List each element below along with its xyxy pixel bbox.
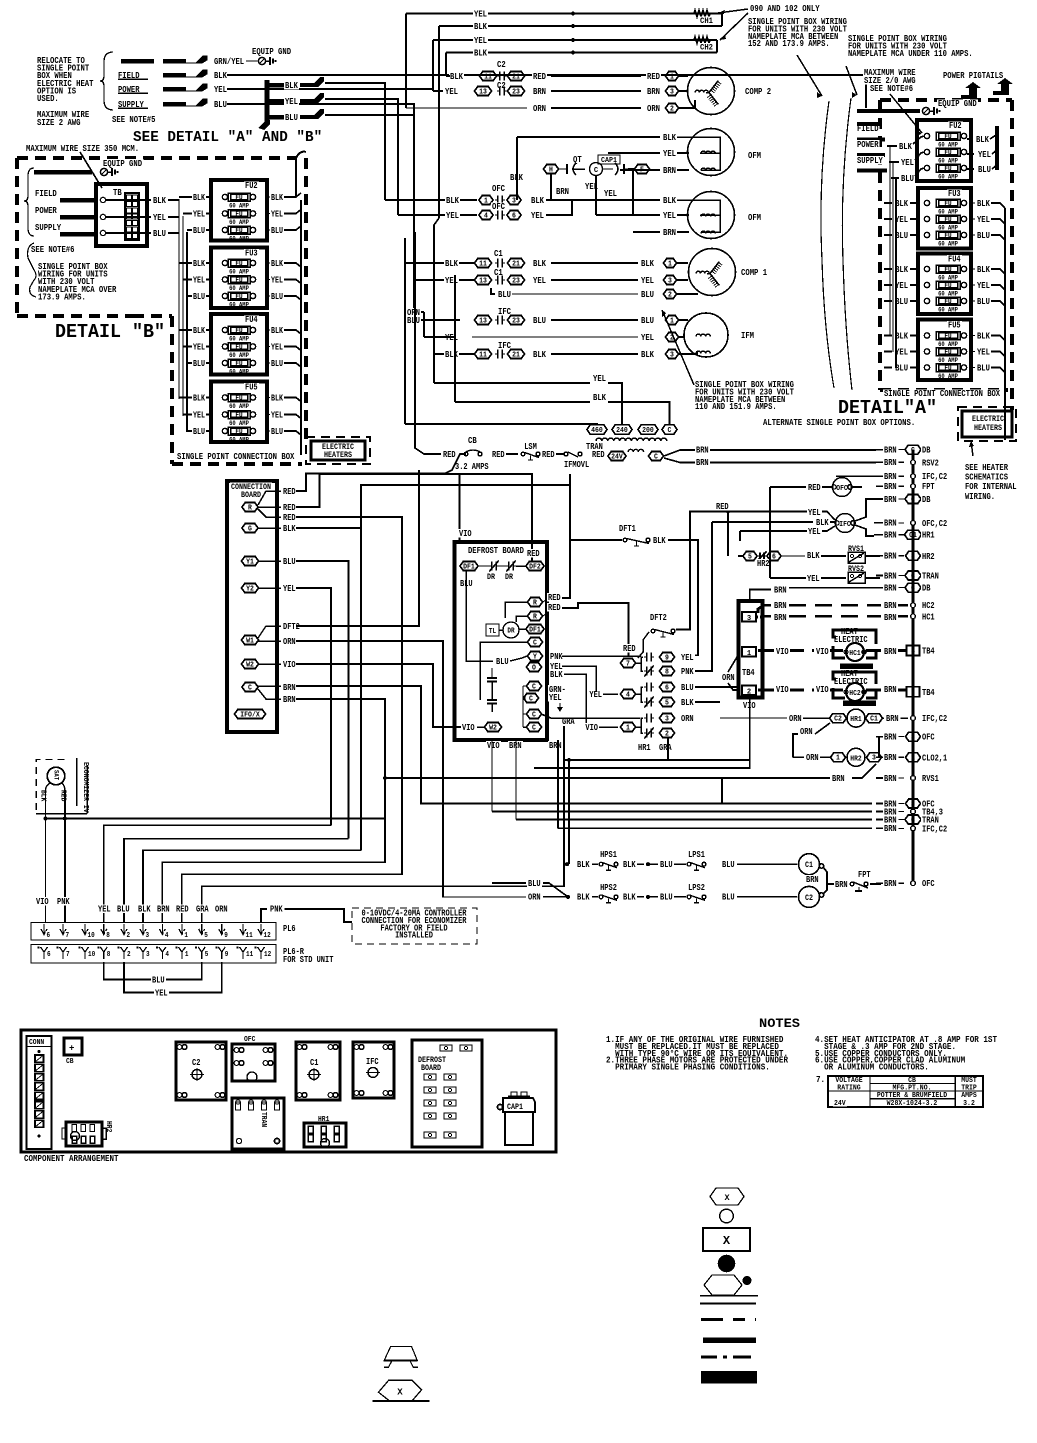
svg-text:BLU: BLU xyxy=(271,359,283,369)
svg-text:DETAIL"A": DETAIL"A" xyxy=(838,397,937,419)
economizer dashed box xyxy=(36,760,64,814)
label alternate single point box options xyxy=(762,418,917,427)
power pigtail arrow 1 xyxy=(961,82,981,99)
dashed thick HC1 wire xyxy=(773,613,788,621)
svg-text:IFC: IFC xyxy=(498,307,511,317)
svg-text:YEL: YEL xyxy=(193,209,205,219)
svg-text:BLU: BLU xyxy=(977,296,990,307)
svg-text:BLU: BLU xyxy=(722,892,735,903)
svg-text:YEL: YEL xyxy=(445,275,458,286)
right FU3 left BLU xyxy=(894,231,909,239)
label RED top right xyxy=(526,549,541,557)
svg-text:LPS2: LPS2 xyxy=(688,882,705,893)
svg-text:BLU: BLU xyxy=(722,859,735,870)
defrost R hexpill 2 xyxy=(528,612,543,621)
defrost contact DR 2 xyxy=(508,562,510,571)
svg-text:BLU: BLU xyxy=(895,230,908,241)
svg-text:BLK: BLK xyxy=(895,331,908,342)
fan motor OFM top xyxy=(688,129,735,176)
wire YEL mid xyxy=(592,374,607,382)
svg-text:BLU: BLU xyxy=(496,656,509,667)
BRN wire hc1 to TB4-4 xyxy=(883,647,898,655)
right FU3 fuse 2 xyxy=(924,216,929,221)
svg-text:FU4: FU4 xyxy=(948,255,961,265)
svg-text:12: 12 xyxy=(264,932,272,940)
right FU3 left BLK xyxy=(894,199,909,207)
svg-text:RED: RED xyxy=(623,643,636,654)
bus terminal IFC,C2 at 476 xyxy=(911,474,916,479)
svg-text:DEFROST BOARD: DEFROST BOARD xyxy=(468,546,524,556)
wire YEL to ifc top xyxy=(805,511,807,514)
leader line from mcm note to TB xyxy=(80,152,102,188)
FU4 right wire BLK xyxy=(267,329,270,331)
legend line under hexagon xyxy=(700,1295,758,1297)
plug hexpill C xyxy=(662,425,677,434)
svg-text:BLU: BLU xyxy=(901,173,914,184)
svg-text:7.: 7. xyxy=(816,1075,825,1085)
svg-text:VIO: VIO xyxy=(36,896,49,907)
FU5 right wire YEL xyxy=(267,414,270,416)
fuse FU3 element 3 xyxy=(222,293,227,298)
svg-text:C: C xyxy=(533,639,537,647)
svg-text:BLU: BLU xyxy=(271,292,283,302)
contactor C2 contact 13-23 xyxy=(496,81,507,89)
TRAN component xyxy=(232,1098,284,1149)
wire hr2-3 down to rvs1 brn xyxy=(852,764,876,778)
svg-text:RED: RED xyxy=(647,71,660,82)
svg-text:BRN: BRN xyxy=(884,457,897,468)
svg-text:HEATERS: HEATERS xyxy=(974,423,1002,433)
svg-text:4: 4 xyxy=(165,951,169,959)
right vertical bus of left fuse column xyxy=(300,200,302,455)
svg-text:13: 13 xyxy=(479,88,487,96)
defrost internal vertical xyxy=(465,571,467,655)
fuse FU4 element 2 xyxy=(222,344,227,349)
svg-text:F: F xyxy=(640,166,644,174)
CB breaker component xyxy=(64,1038,82,1055)
svg-text:BLK: BLK xyxy=(663,195,676,206)
single point connection box label left xyxy=(176,452,296,461)
svg-text:YEL: YEL xyxy=(641,275,654,286)
defrost contact DR 1 xyxy=(491,562,493,571)
svg-text:OFC: OFC xyxy=(492,202,505,212)
right FU5 fuse 3 xyxy=(924,365,929,370)
contactor coil C1 circle xyxy=(799,854,820,875)
right FU4 left BLK xyxy=(894,265,909,273)
bus terminal IFC,C2 at 718 xyxy=(911,716,916,721)
svg-text:YEL: YEL xyxy=(978,149,991,160)
svg-text:YEL: YEL xyxy=(193,410,205,420)
defrost DF1 hexpill xyxy=(460,562,478,571)
terminal R xyxy=(242,503,258,512)
svg-text:POWER PIGTAILS: POWER PIGTAILS xyxy=(943,70,1004,81)
svg-text:FU: FU xyxy=(944,216,951,224)
wire HPS1 feed vertical xyxy=(568,760,570,864)
svg-text:DB: DB xyxy=(922,445,931,456)
overload contact xyxy=(568,452,578,457)
field row right box xyxy=(856,124,880,133)
note: relocate to single point box text xyxy=(36,56,86,65)
svg-text:R: R xyxy=(533,613,537,621)
label RED lsm right xyxy=(541,450,556,458)
electric heaters box left xyxy=(311,441,365,460)
bus terminal IFC,C2 at 828 xyxy=(911,826,916,831)
FU4 right wire BLU xyxy=(267,362,270,364)
svg-text:11: 11 xyxy=(479,351,487,359)
svg-text:FU: FU xyxy=(235,260,242,268)
power row right box xyxy=(856,140,880,149)
svg-text:C1: C1 xyxy=(870,716,878,724)
svg-text:W2: W2 xyxy=(246,661,254,669)
svg-text:YEL: YEL xyxy=(895,214,908,225)
wire BLK G to DFT1 xyxy=(296,485,622,540)
crankcase heater CH1 xyxy=(694,10,710,17)
fuse box FU2 left xyxy=(211,180,267,241)
svg-text:10: 10 xyxy=(88,932,96,940)
transformer coil xyxy=(628,449,644,452)
svg-text:7: 7 xyxy=(66,932,70,940)
svg-text:FIELD: FIELD xyxy=(35,188,57,199)
svg-text:TB4: TB4 xyxy=(742,668,755,678)
svg-text:FU: FU xyxy=(944,298,951,306)
defrost R hexpill 1 xyxy=(528,598,543,607)
svg-text:2: 2 xyxy=(747,688,752,696)
svg-text:FU4: FU4 xyxy=(245,315,258,325)
long brace parenthesis 1 xyxy=(821,101,834,388)
svg-text:SIZE 2 AWG: SIZE 2 AWG xyxy=(37,117,81,128)
heat electric bottom bar xyxy=(843,700,876,706)
svg-text:13: 13 xyxy=(479,277,487,285)
wire ORN hr2 source xyxy=(799,727,814,735)
bus terminal OFC at 883 xyxy=(911,881,916,886)
svg-text:2: 2 xyxy=(665,730,669,738)
wire BRN ofm1 xyxy=(662,166,677,174)
label BRN fpt right xyxy=(870,883,881,885)
bus terminal TB4 at 691 xyxy=(907,687,920,697)
svg-text:RED: RED xyxy=(283,512,296,523)
svg-text:DR: DR xyxy=(487,573,495,582)
svg-text:BLU: BLU xyxy=(285,112,298,123)
svg-text:ALTERNATE SINGLE POINT BOX OPT: ALTERNATE SINGLE POINT BOX OPTIONS. xyxy=(763,417,915,428)
svg-text:3: 3 xyxy=(872,755,876,763)
svg-text:WIRING.: WIRING. xyxy=(965,491,995,502)
wire BLU staircase xyxy=(124,839,349,922)
svg-text:FU2: FU2 xyxy=(245,181,258,191)
svg-text:TL: TL xyxy=(489,628,496,636)
svg-text:3: 3 xyxy=(911,801,915,809)
OFC row2 leads xyxy=(398,214,477,216)
svg-text:RED: RED xyxy=(548,602,561,613)
svg-text:60 AMP: 60 AMP xyxy=(229,368,249,375)
svg-text:BLU: BLU xyxy=(660,859,673,870)
fuse FU5 element 1 xyxy=(222,395,227,400)
HR1 contact 9 YEL xyxy=(646,653,648,662)
svg-text:CH1: CH1 xyxy=(700,16,713,26)
svg-text:C: C xyxy=(248,684,252,692)
svg-text:COMP 2: COMP 2 xyxy=(745,86,771,97)
svg-text:21: 21 xyxy=(512,351,520,359)
label BLK above OFC xyxy=(509,173,524,181)
svg-text:BRN: BRN xyxy=(533,86,546,97)
svg-text:C2: C2 xyxy=(497,60,506,70)
svg-text:W28X-1024-3.2: W28X-1024-3.2 xyxy=(887,1100,938,1108)
junction dot hps1 xyxy=(565,862,569,866)
svg-text:3: 3 xyxy=(670,351,674,359)
wire YEL to CH2 xyxy=(433,39,717,41)
svg-text:12: 12 xyxy=(264,951,272,959)
svg-text:C: C xyxy=(654,453,658,461)
connection board box xyxy=(227,481,277,732)
svg-text:BRN: BRN xyxy=(884,481,897,492)
legend rectangle with X xyxy=(703,1228,750,1251)
wire BLU supply to bus xyxy=(227,104,414,115)
svg-text:BLU: BLU xyxy=(153,228,166,239)
right FU5 right BLK xyxy=(971,335,975,337)
svg-text:GRA: GRA xyxy=(659,742,672,753)
heat electric 1 box xyxy=(840,627,859,635)
wire hr1 row xyxy=(874,534,876,536)
svg-text:H: H xyxy=(549,166,553,174)
svg-text:FU: FU xyxy=(235,277,242,285)
svg-text:BLU: BLU xyxy=(681,682,694,693)
wire BLU stub to left bus xyxy=(325,115,414,316)
svg-text:OFC,C2: OFC,C2 xyxy=(922,518,947,529)
FU3 right wire YEL xyxy=(267,279,270,281)
FU5 right wire BLK xyxy=(267,397,270,399)
svg-text:BLK: BLK xyxy=(681,697,694,708)
label BLU lps1 right xyxy=(721,860,736,868)
svg-text:YEL: YEL xyxy=(283,583,296,594)
svg-text:BRN: BRN xyxy=(884,471,897,482)
HR2 contact 5-6 xyxy=(743,552,757,561)
left bus verticals xyxy=(405,14,407,109)
long brace parenthesis 2 xyxy=(842,98,852,390)
svg-text:OFC: OFC xyxy=(492,184,505,194)
svg-text:2: 2 xyxy=(670,105,674,113)
IFC contact 13-23 xyxy=(414,312,424,316)
svg-text:OFC: OFC xyxy=(836,485,848,493)
defrost thermostat DFT2 xyxy=(649,613,668,621)
wire YEL to ifc bottom xyxy=(740,530,806,532)
wire rsv2 row xyxy=(700,461,875,463)
svg-text:TB: TB xyxy=(113,187,122,198)
equip gnd right box xyxy=(937,99,978,107)
equip gnd label top-left xyxy=(251,47,292,56)
label BLK hps2 right xyxy=(622,893,637,901)
brace detail B rows xyxy=(24,168,34,236)
wire DFT2 from W1 xyxy=(296,470,419,626)
svg-text:IFC,C2: IFC,C2 xyxy=(922,823,947,834)
svg-text:RED: RED xyxy=(527,548,540,559)
svg-text:4: 4 xyxy=(484,212,488,220)
hexpill F xyxy=(635,165,650,174)
svg-text:NOTES: NOTES xyxy=(759,1016,800,1031)
svg-text:1: 1 xyxy=(836,755,840,763)
right FU2 left leads xyxy=(898,142,913,150)
svg-text:YEL: YEL xyxy=(593,373,606,384)
svg-text:2: 2 xyxy=(127,951,131,959)
svg-text:3: 3 xyxy=(668,277,672,285)
svg-text:8: 8 xyxy=(107,951,111,959)
arrow into electric heaters xyxy=(971,441,973,456)
TB4 terminal 2 xyxy=(742,686,756,696)
svg-text:FPT: FPT xyxy=(922,481,935,492)
component arrangement label xyxy=(23,1154,120,1162)
right FU2 right leads xyxy=(975,135,990,143)
svg-text:200: 200 xyxy=(642,427,654,435)
legend circle xyxy=(720,1209,734,1223)
label RED cb right xyxy=(491,450,506,458)
svg-text:IFM: IFM xyxy=(741,330,754,341)
wire YEL staircase xyxy=(104,825,331,922)
svg-text:ORN: ORN xyxy=(215,904,228,915)
HR1 contact 3 ORN xyxy=(646,714,648,723)
leader from see note6 to FU2 xyxy=(890,94,922,133)
wire db 499 row xyxy=(874,498,876,500)
legend dashed line xyxy=(701,1318,756,1321)
svg-text:VIO: VIO xyxy=(816,646,829,657)
bus terminal TRAN at 575 xyxy=(905,571,921,580)
bus BRN labels xyxy=(883,482,898,490)
svg-text:RED: RED xyxy=(283,486,296,497)
wire ORN comp2 xyxy=(406,107,527,109)
CONN pin 1 xyxy=(35,1055,44,1062)
wire YEL power to bus xyxy=(227,88,433,90)
svg-text:OFM: OFM xyxy=(748,150,761,161)
wire GRA to pl6 xyxy=(202,726,564,922)
wire dot to hps2 xyxy=(576,893,591,901)
brace note detail B xyxy=(28,243,36,297)
svg-text:2: 2 xyxy=(127,932,131,940)
svg-text:3: 3 xyxy=(670,88,674,96)
label BLU mid xyxy=(495,657,510,665)
TB terminal strip xyxy=(125,193,139,240)
svg-text:9: 9 xyxy=(224,932,228,940)
C2 contactor component xyxy=(176,1042,226,1100)
svg-text:RSV2: RSV2 xyxy=(922,457,939,468)
svg-text:4: 4 xyxy=(911,648,915,656)
svg-text:BLK: BLK xyxy=(193,193,205,203)
label power pigtails xyxy=(942,71,1005,79)
svg-text:BLK: BLK xyxy=(593,392,606,403)
right FU4 fuse 2 xyxy=(924,282,929,287)
single point connection box label right xyxy=(883,389,1002,397)
svg-text:1: 1 xyxy=(911,755,915,763)
svg-text:VIO: VIO xyxy=(487,740,500,751)
svg-text:TRAN: TRAN xyxy=(259,1112,267,1127)
svg-text:FU: FU xyxy=(944,232,951,240)
svg-text:BRN: BRN xyxy=(884,684,897,695)
bus terminal HC2 at 605 xyxy=(911,603,916,608)
defrost C hexpill col 4 xyxy=(527,723,542,732)
svg-text:BRN: BRN xyxy=(283,682,296,693)
FU5 right wire BLU xyxy=(267,430,270,432)
svg-text:ORN: ORN xyxy=(806,752,819,763)
svg-text:QT: QT xyxy=(573,155,582,165)
svg-text:60 AMP: 60 AMP xyxy=(229,436,249,443)
C2 row leads to left bus xyxy=(446,75,450,77)
CONN pin 7 xyxy=(35,1111,44,1118)
bus terminal OFC,C2 at 522 xyxy=(911,521,916,526)
svg-text:SEE NOTE#6: SEE NOTE#6 xyxy=(31,244,75,255)
svg-text:LSM: LSM xyxy=(524,441,537,452)
note: single point box wiring 110-151.9 xyxy=(694,380,795,388)
junction dot BLK 2 xyxy=(571,51,575,55)
FU2 right wire BLK xyxy=(267,196,270,198)
fuse box FU5 left xyxy=(211,382,267,443)
svg-text:VIO: VIO xyxy=(585,722,598,733)
vertical right end CH pair 2 xyxy=(716,40,718,53)
svg-text:BRN: BRN xyxy=(283,694,296,705)
note: single point box wiring 152-173.9 xyxy=(747,17,848,25)
svg-text:9: 9 xyxy=(665,654,669,662)
wire BLU comp1 xyxy=(497,290,512,298)
svg-text:BLU: BLU xyxy=(660,892,673,903)
svg-text:BLK: BLK xyxy=(895,198,908,209)
HR1 contact 6 BLU xyxy=(646,683,648,692)
svg-text:11: 11 xyxy=(246,951,254,959)
supply row right box xyxy=(856,156,884,165)
wire brn ofc3 branch xyxy=(878,737,880,758)
PL6-R Y connectors xyxy=(41,947,48,959)
svg-text:BLK: BLK xyxy=(623,859,636,870)
svg-text:24V: 24V xyxy=(834,1100,846,1108)
labels PNK YEL BLK right xyxy=(549,652,564,660)
defrost bottom drops xyxy=(491,740,493,812)
svg-text:RED: RED xyxy=(443,449,456,460)
TB terminal circles xyxy=(100,197,105,202)
power pigtail arrow 2 xyxy=(993,78,1013,95)
wire BLK stub to left bus xyxy=(325,83,385,200)
svg-text:BLK: BLK xyxy=(977,198,990,209)
svg-text:YEL: YEL xyxy=(531,210,544,221)
note: maximum wire size 2/0 awg xyxy=(863,68,917,76)
power row detail B xyxy=(34,206,58,215)
svg-text:BLU: BLU xyxy=(117,904,130,915)
relay IFC circle xyxy=(806,512,835,521)
wire DFT2 right to IFC xyxy=(676,512,806,630)
svg-text:PNK: PNK xyxy=(270,904,283,915)
svg-text:DR: DR xyxy=(505,573,513,582)
FU3 right wire BLK xyxy=(267,262,270,264)
svg-text:DB: DB xyxy=(922,583,931,594)
svg-text:3.2 AMPS: 3.2 AMPS xyxy=(455,461,489,472)
svg-text:ELECTRIC: ELECTRIC xyxy=(834,677,868,687)
svg-text:ORN: ORN xyxy=(722,672,735,683)
plug PL6-R box xyxy=(31,945,276,964)
svg-text:BLK: BLK xyxy=(531,195,544,206)
wire ofc,c2 row xyxy=(874,522,876,524)
bus terminal DB at 587 xyxy=(905,583,921,592)
svg-text:DR: DR xyxy=(507,628,515,636)
svg-text:ORN: ORN xyxy=(647,103,660,114)
svg-text:8: 8 xyxy=(106,932,110,940)
wire BLU Y1 xyxy=(296,561,349,839)
svg-text:FU: FU xyxy=(944,333,951,341)
stub wire BLK xyxy=(267,83,284,88)
labels VIO BRN below defrost xyxy=(486,741,501,749)
svg-text:YEL: YEL xyxy=(193,275,205,285)
svg-text:YEL: YEL xyxy=(977,280,990,291)
bus terminal OFC at 803 xyxy=(906,799,921,808)
label RED tran xyxy=(591,450,606,458)
svg-text:YEL: YEL xyxy=(193,342,205,352)
svg-text:FU: FU xyxy=(235,412,242,420)
svg-text:BLK: BLK xyxy=(193,326,205,336)
svg-text:HR2: HR2 xyxy=(104,1121,112,1132)
plug hexpill 200 xyxy=(638,425,658,434)
HR1 contact 5 BLK xyxy=(646,698,648,707)
